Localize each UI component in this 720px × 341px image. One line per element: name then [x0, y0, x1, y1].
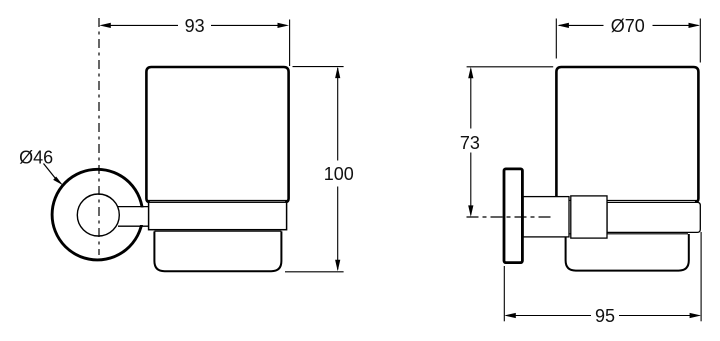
svg-text:95: 95 — [595, 306, 615, 326]
tumbler body (front view) — [146, 67, 288, 202]
dimension line 93 — [99, 23, 289, 28]
tumbler body (side view) — [556, 67, 698, 202]
extension line right of 95 — [700, 232, 702, 321]
leader line for Ø46 — [44, 164, 56, 179]
tumbler bottom edge line (side view) — [558, 199, 698, 201]
extension line left of 95 — [503, 266, 505, 321]
leader arrowhead — [53, 177, 63, 186]
svg-text:Ø70: Ø70 — [611, 16, 645, 36]
holder ring band (front view) — [149, 202, 287, 230]
lower tumbler top edge line (front view) — [154, 230, 281, 232]
extension line right of 93 — [289, 20, 291, 67]
svg-text:Ø46: Ø46 — [19, 147, 53, 167]
lower tumbler body (front view) — [154, 231, 281, 271]
wall flange outer circle Ø46 — [52, 169, 143, 260]
svg-text:100: 100 — [324, 164, 354, 184]
extension line top of 73 — [467, 66, 554, 68]
svg-text:73: 73 — [460, 133, 480, 153]
lower tumbler top edge line (side view) — [566, 233, 688, 235]
extension line right of Ø70 — [699, 19, 701, 63]
extension line bottom of 100 — [285, 271, 344, 273]
holder ring band (side view) — [607, 202, 700, 232]
mounting stem (front view) — [116, 207, 149, 227]
centerline (front view vertical axis) — [98, 18, 100, 255]
dimension line 100 — [335, 67, 340, 272]
dimension line Ø70 — [557, 23, 700, 28]
lower tumbler body (side view) — [566, 234, 689, 271]
bracket arm (side view) — [523, 197, 569, 237]
wall plate (side view) — [504, 169, 522, 263]
centerline (side view horizontal axis) — [467, 216, 554, 218]
extension line left of Ø70 — [555, 19, 557, 59]
bracket block (side view) — [571, 196, 607, 238]
wall flange inner circle — [77, 194, 119, 236]
extension line top of 100 — [293, 66, 344, 68]
tumbler bottom edge line (front view) — [148, 199, 288, 201]
svg-text:93: 93 — [185, 16, 205, 36]
dimension line 73 — [468, 67, 473, 217]
dimension line 95 — [504, 313, 701, 318]
